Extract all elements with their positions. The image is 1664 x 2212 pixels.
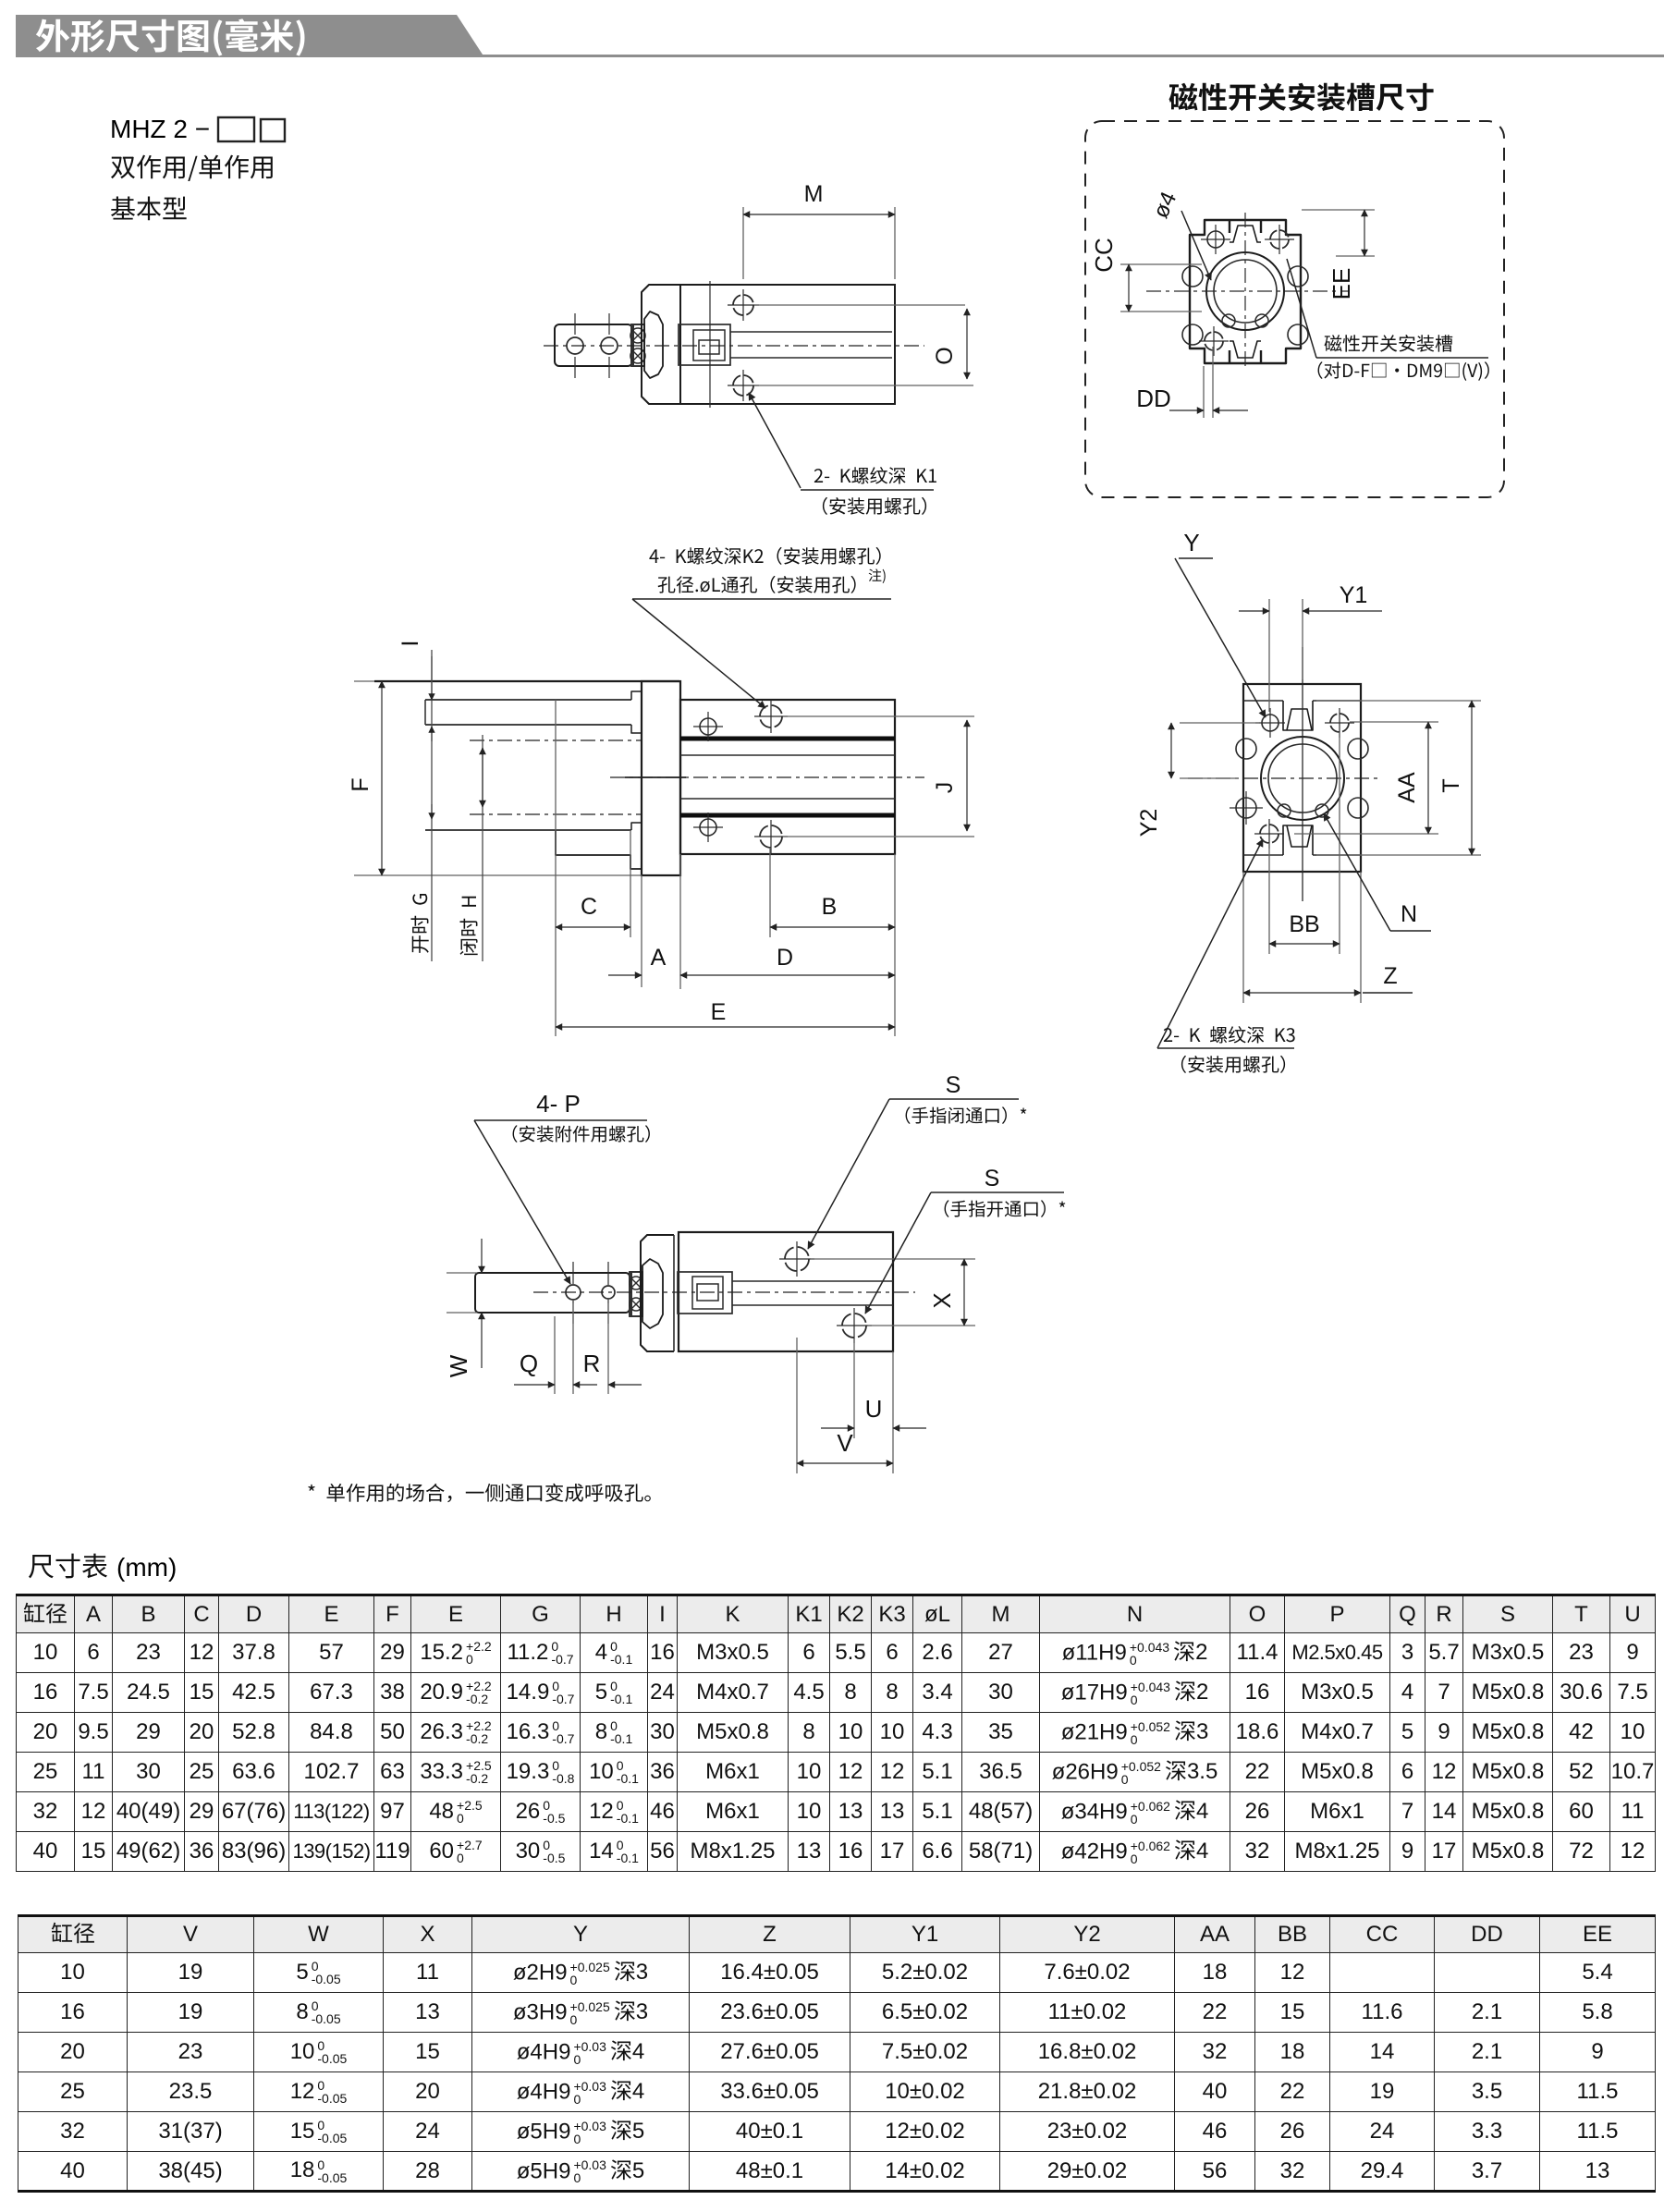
dim Z: [1242, 872, 1244, 1003]
header banner: [16, 15, 484, 57]
piston bottom: [678, 1272, 732, 1314]
thread hole bottom-left 2-K K3: [1260, 825, 1279, 843]
svg-text:Y2: Y2: [1136, 809, 1162, 837]
dim H line: [482, 735, 483, 961]
bore rear: [1261, 737, 1344, 820]
arm hole P2: [602, 1286, 615, 1299]
port thread circle bottom: [733, 375, 753, 396]
centerline: [610, 776, 924, 778]
note sup: [869, 568, 886, 583]
baseline ext: [354, 874, 642, 876]
dashed detail box: [1085, 121, 1504, 497]
when open G: [410, 894, 428, 953]
note single acting: [308, 1484, 650, 1503]
svg-text:ø4: ø4: [1148, 188, 1181, 222]
dim R: [608, 1384, 642, 1386]
svg-text:E: E: [711, 999, 727, 1025]
vertical center tick: [709, 281, 711, 408]
dim I line + G line: [431, 650, 433, 961]
body bottom view: [679, 1232, 893, 1351]
magnetic switch groove detail title: [1169, 83, 1434, 111]
port thread circle top (2-K): [733, 295, 753, 315]
centerline: [544, 345, 924, 347]
front plate: [642, 285, 680, 404]
double/single acting: [111, 155, 273, 181]
svg-text:V: V: [837, 1429, 853, 1457]
dim D: [894, 854, 896, 1036]
svg-text:U: U: [865, 1395, 883, 1423]
dim A: [641, 875, 642, 987]
bottom slot: [1283, 825, 1313, 855]
ext lines to J: [783, 715, 974, 717]
body: [680, 285, 895, 404]
top slot: [1283, 701, 1313, 730]
label 4-K thread K2: [649, 547, 880, 565]
svg-text:W: W: [445, 1354, 472, 1377]
dim X: [963, 1259, 965, 1326]
svg-text:I: I: [398, 641, 423, 647]
svg-text:DD: DD: [1136, 385, 1171, 412]
arm bottom view: [475, 1273, 630, 1313]
basic type: [111, 196, 187, 220]
svg-text:(mm): (mm): [116, 1553, 177, 1582]
leader N: [1324, 813, 1390, 931]
dim O: [966, 309, 968, 379]
sensor groove circles: [1182, 266, 1203, 287]
svg-text:X: X: [928, 1292, 956, 1308]
svg-text:D: D: [777, 945, 793, 971]
finger foot: [556, 830, 642, 869]
front plate bottom view: [641, 1235, 674, 1351]
dim C: [555, 700, 557, 1036]
finger centerlines: [470, 739, 642, 741]
dim B: [769, 848, 771, 937]
top T-slot: [1230, 220, 1261, 233]
dim T: [1316, 700, 1481, 702]
jaw holder trapezoid: [644, 312, 663, 378]
label hole dia oL: [658, 576, 856, 593]
dim DD: [1203, 366, 1205, 418]
svg-text:N: N: [1401, 901, 1417, 927]
dim M: [742, 207, 744, 279]
finger attachment arm: [555, 324, 632, 366]
mounting thread holes 4-K: [760, 705, 782, 727]
piston housing: [679, 324, 730, 365]
dim CC: [1120, 263, 1202, 265]
dim Y1: [1268, 599, 1270, 712]
svg-text:T: T: [1438, 778, 1464, 792]
clamp block: [631, 324, 644, 366]
table title 尺寸表 (mm): [29, 1554, 107, 1579]
gripper cross-section outline: [1190, 220, 1301, 363]
port S close: [785, 1247, 809, 1271]
port S open: [842, 1314, 866, 1338]
dim J: [966, 720, 968, 831]
svg-text:AA: AA: [1394, 772, 1420, 803]
dim V: [796, 1338, 798, 1473]
dim Q: [514, 1384, 555, 1386]
thread hole top-right: [1270, 230, 1289, 249]
mounting hole top-left: [1207, 231, 1224, 248]
svg-text:S: S: [946, 1072, 961, 1098]
label 2-K K3: [1157, 839, 1263, 1048]
svg-text:Q: Q: [520, 1350, 538, 1377]
svg-text:BB: BB: [1289, 911, 1319, 937]
dim Q R ext: [554, 1316, 556, 1394]
arm hole 1: [567, 337, 583, 354]
svg-text:MHZ 2 −: MHZ 2 −: [110, 115, 210, 143]
leader ø4: [1181, 211, 1211, 280]
body outline: [1243, 684, 1361, 872]
svg-text:4- P: 4- P: [536, 1090, 581, 1118]
body front: [680, 700, 895, 854]
plate front view: [642, 681, 680, 875]
svg-text:B: B: [822, 894, 838, 920]
ext lines to O dim: [754, 304, 965, 306]
svg-text:EE: EE: [1328, 268, 1355, 300]
svg-text:C: C: [581, 894, 597, 920]
label 2-K thread depth K1: [814, 467, 936, 483]
svg-text:R: R: [583, 1350, 601, 1377]
snap ring holes: [1222, 314, 1235, 327]
svg-text:CC: CC: [1090, 238, 1118, 273]
upper finger: [374, 680, 679, 682]
piston rod: [730, 331, 892, 333]
when closed H: [459, 897, 477, 955]
dim W: [447, 1272, 477, 1274]
arm hole P1: [566, 1285, 581, 1300]
svg-text:J: J: [932, 782, 958, 794]
rod bottom: [732, 1280, 893, 1282]
guide rails: [680, 737, 895, 741]
svg-text:Y1: Y1: [1340, 582, 1368, 608]
cylinder bore: [1206, 252, 1284, 330]
ext to X: [811, 1258, 975, 1260]
ear circles: [1236, 739, 1256, 759]
dim Y2: [1180, 722, 1259, 724]
svg-text:A: A: [651, 945, 667, 971]
port circles: [700, 718, 716, 735]
svg-text:O: O: [932, 347, 958, 364]
dim E: [556, 1026, 895, 1028]
jaw trapezoid bottom: [642, 1259, 663, 1328]
dim F: [381, 681, 383, 875]
centerline bottom: [533, 1291, 915, 1293]
leader 2-K thread K1: [749, 393, 801, 488]
arm hole 2: [601, 337, 618, 354]
centerlines rear: [1188, 777, 1377, 779]
banner title: [36, 18, 305, 55]
dim EE: [1302, 209, 1375, 211]
lower finger: [425, 829, 631, 831]
svg-text:M: M: [804, 181, 824, 207]
svg-text:Y: Y: [1183, 529, 1199, 556]
svg-text:Z: Z: [1383, 963, 1397, 989]
dim AA: [1350, 721, 1438, 723]
top label leader 4-K: [632, 599, 765, 708]
dim BB: [1268, 843, 1270, 954]
hole Y top-left: [1262, 715, 1279, 731]
dim U: [853, 1339, 855, 1438]
callout sensor groove: [1325, 335, 1453, 352]
bottom T-slot: [1230, 350, 1261, 363]
centerlines: [1146, 290, 1350, 292]
svg-text:F: F: [348, 777, 373, 791]
clamp block bottom: [630, 1272, 642, 1316]
thread hole bottom-left: [1205, 332, 1223, 350]
svg-text:S: S: [985, 1166, 1000, 1192]
thread hole top-right: [1330, 714, 1349, 732]
